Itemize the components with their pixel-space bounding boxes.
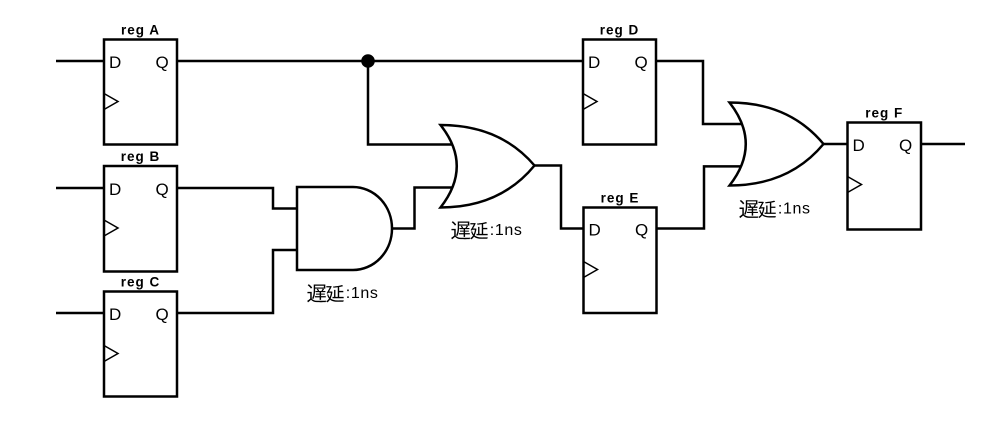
svg-text:D: D [589, 221, 601, 240]
svg-text:Q: Q [899, 136, 912, 155]
svg-text:Q: Q [635, 221, 648, 240]
svg-text:D: D [109, 180, 121, 199]
svg-text:reg C: reg C [121, 275, 161, 290]
svg-text:Q: Q [156, 53, 169, 72]
svg-text:Q: Q [156, 305, 169, 324]
svg-text:reg B: reg B [121, 149, 161, 164]
svg-text:D: D [109, 305, 121, 324]
svg-text:reg A: reg A [121, 23, 160, 38]
svg-text:D: D [109, 53, 121, 72]
svg-text:reg E: reg E [601, 191, 640, 206]
svg-text:reg D: reg D [600, 23, 640, 38]
svg-text:Q: Q [156, 180, 169, 199]
svg-text:Q: Q [635, 53, 648, 72]
svg-text:reg F: reg F [865, 106, 903, 121]
svg-text:D: D [588, 53, 600, 72]
svg-text:D: D [853, 136, 865, 155]
